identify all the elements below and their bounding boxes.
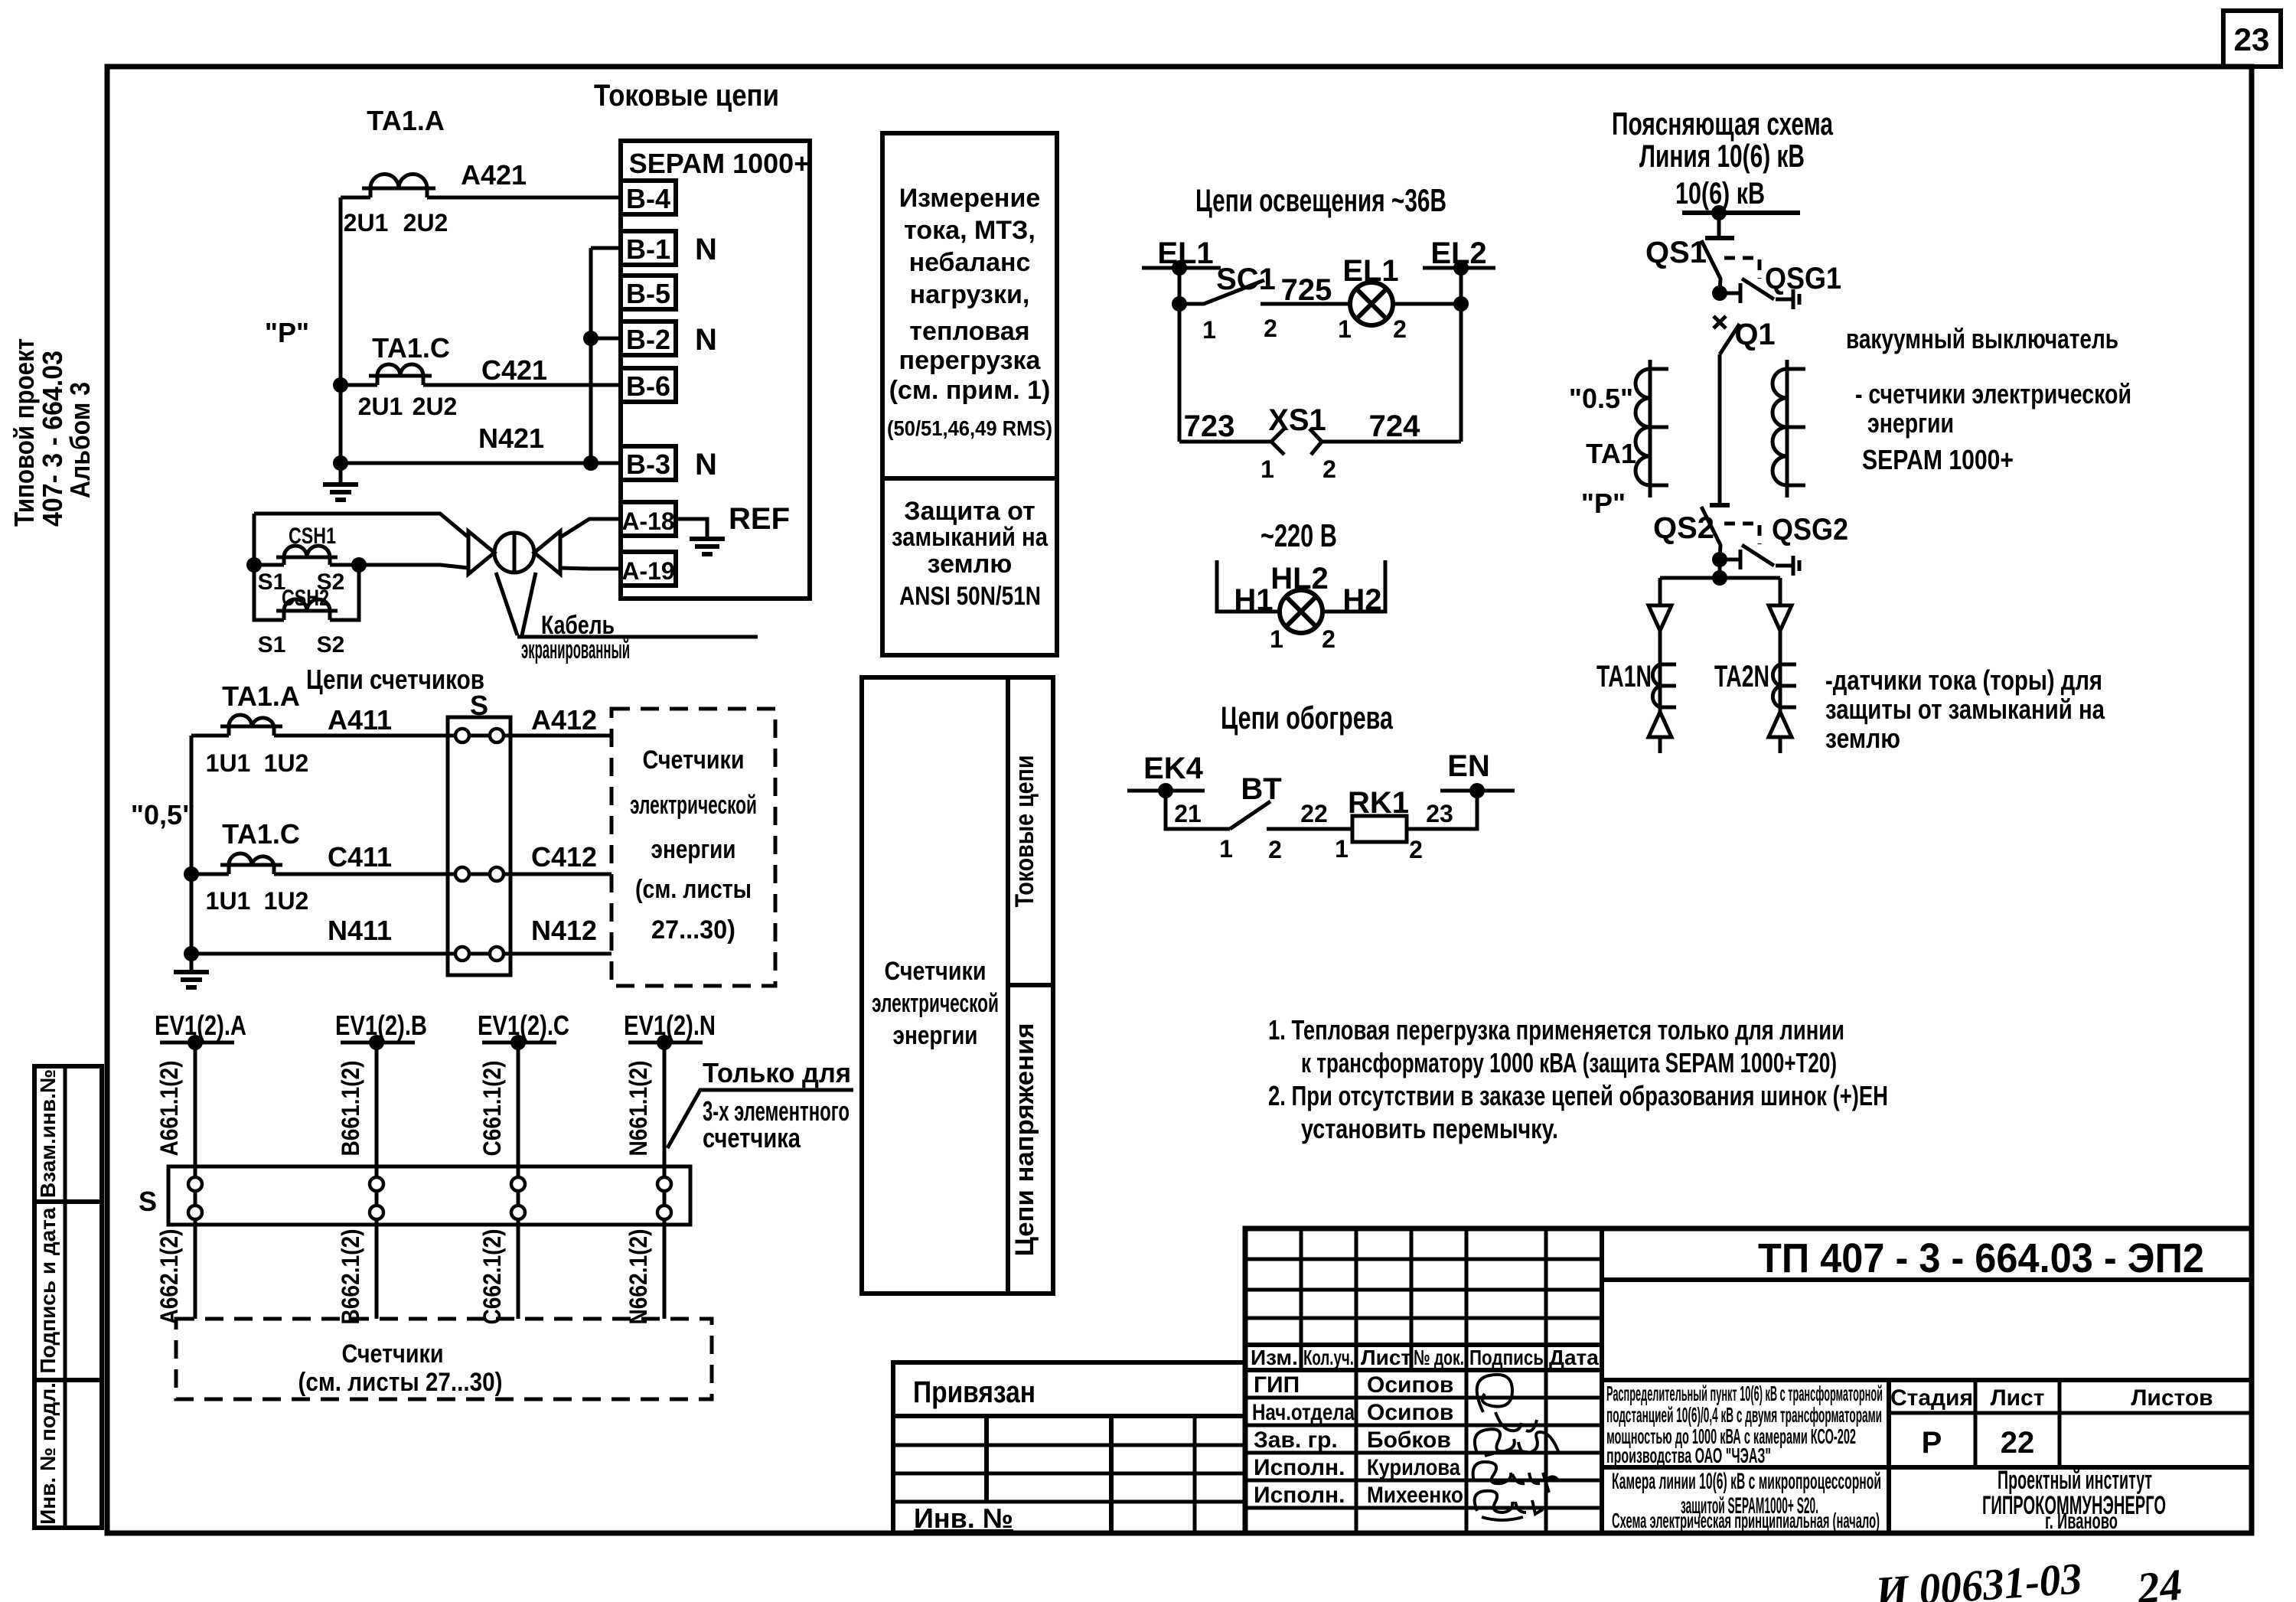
node EL2 [1423, 237, 1495, 276]
svg-text:Цепи напряжения: Цепи напряжения [1010, 1023, 1039, 1257]
pin 2U1 of TA1.C [358, 393, 403, 420]
junction below QS1 [1712, 285, 1727, 301]
svg-text:724: 724 [1369, 409, 1420, 443]
toroidal CT TA2N [1714, 660, 1796, 707]
contacts of S on A411 [455, 729, 504, 742]
label Кабель экранированный [496, 573, 758, 664]
svg-text:Линия 10(6) кВ: Линия 10(6) кВ [1639, 138, 1805, 174]
svg-text:счетчика: счетчика [703, 1122, 801, 1153]
junction N bus at B-3 [583, 455, 598, 471]
svg-text:землю: землю [928, 550, 1013, 579]
contacts of S on C411 [455, 867, 504, 881]
terminal A-19 [621, 552, 676, 586]
terminal B-2 [621, 321, 676, 355]
svg-text:Камера линии 10(6) кВ с микроп: Камера линии 10(6) кВ с микропроцессорно… [1612, 1469, 1881, 1494]
svg-text:B661.1(2): B661.1(2) [337, 1061, 364, 1157]
pin 2 of HL2 [1322, 625, 1336, 653]
wire 725 [1261, 273, 1351, 307]
svg-text:производства ОАО "ЧЭАЗ": производства ОАО "ЧЭАЗ" [1606, 1444, 1771, 1467]
wire bus to QS1 [1705, 213, 1734, 238]
svg-text:Р: Р [1922, 1426, 1942, 1460]
svg-text:Осипов: Осипов [1367, 1372, 1453, 1398]
label TA1 [1586, 438, 1636, 469]
svg-text:ТА1.С: ТА1.С [222, 818, 300, 850]
wire cable to A-18 [560, 519, 621, 537]
test block S voltage [139, 1166, 690, 1225]
title block document number ТП 407-3-664.03-ЭП2 [1602, 1235, 2252, 1281]
wire A421 [341, 159, 621, 197]
label P [1581, 488, 1626, 519]
svg-text:экранированный: экранированный [521, 635, 630, 664]
node H2 rail [1322, 560, 1385, 612]
svg-text:Цепи обогрева: Цепи обогрева [1221, 700, 1393, 736]
svg-text:Исполн.: Исполн. [1254, 1455, 1345, 1480]
terminal B-3 [621, 446, 676, 480]
svg-text:тока, МТЗ,: тока, МТЗ, [904, 216, 1035, 245]
net label N at B-1 [695, 233, 717, 266]
svg-text:2U1: 2U1 [358, 393, 403, 420]
svg-text:2: 2 [1322, 455, 1336, 483]
svg-text:Дата: Дата [1549, 1346, 1599, 1369]
svg-text:1: 1 [1335, 835, 1349, 863]
wire 724 [1322, 409, 1461, 443]
wire EL1 drop [1178, 268, 1182, 442]
left sidebar table [34, 1066, 102, 1528]
section title Токовые цепи [594, 79, 779, 113]
wire B661.1(2) [337, 1042, 377, 1166]
wire N661.1(2) [625, 1042, 664, 1166]
svg-text:Взам.инв.№: Взам.инв.№ [36, 1069, 60, 1198]
svg-text:энергии: энергии [893, 1021, 978, 1050]
svg-text:г. Иваново: г. Иваново [2045, 1509, 2118, 1534]
svg-text:Привязан: Привязан [913, 1375, 1035, 1409]
pin 2U2 of TA1.C [413, 393, 458, 420]
svg-text:21: 21 [1174, 800, 1202, 827]
svg-text:Нач.отдела: Нач.отдела [1252, 1400, 1355, 1425]
svg-text:2: 2 [1393, 315, 1407, 343]
notes [1268, 1014, 1888, 1144]
contacts of S voltage on A [188, 1166, 202, 1225]
svg-text:407- 3 - 664.03: 407- 3 - 664.03 [37, 351, 68, 527]
arrow up right [1769, 707, 1792, 753]
svg-text:REF: REF [729, 502, 790, 536]
pin 1 of SC1 [1202, 316, 1216, 344]
svg-text:Исполн.: Исполн. [1254, 1483, 1345, 1508]
svg-text:EV1(2).C: EV1(2).C [478, 1010, 569, 1041]
contacts of S voltage on B [370, 1166, 383, 1225]
svg-text:EN: EN [1447, 749, 1490, 783]
label H1 [1234, 583, 1273, 617]
svg-text:N661.1(2): N661.1(2) [625, 1061, 652, 1157]
svg-text:- счетчики электрической: - счетчики электрической [1855, 378, 2131, 409]
svg-text:Листов: Листов [2131, 1385, 2213, 1411]
svg-text:тепловая: тепловая [909, 317, 1029, 346]
wire N bus vertical [591, 248, 621, 463]
svg-text:N411: N411 [328, 915, 392, 946]
toroidal CT CSH1 [276, 524, 338, 565]
svg-text:Счетчики: Счетчики [342, 1339, 444, 1369]
svg-text:защиты от замыканий на: защиты от замыканий на [1825, 693, 2105, 725]
wire left sensor drop [1658, 578, 1662, 605]
pin 2 of lamp EL1 [1393, 315, 1407, 343]
svg-text:Счетчики: Счетчики [885, 957, 987, 986]
wire into TA2N [1779, 631, 1782, 664]
wire 22 [1267, 800, 1352, 829]
svg-text:Кол.уч.: Кол.уч. [1303, 1346, 1354, 1369]
pin S2 of CSH1 [317, 569, 345, 595]
meters box Счетчики электрической энергии [612, 709, 775, 986]
svg-text:B-3: B-3 [626, 449, 670, 480]
wire CSH right loop [330, 565, 359, 620]
terminal B-1 [621, 231, 676, 265]
wire C412 [503, 841, 612, 874]
svg-text:Подпись: Подпись [1469, 1346, 1544, 1369]
earthing switch QSG1 [1720, 262, 1841, 309]
svg-text:27...30): 27...30) [651, 915, 735, 945]
svg-text:2: 2 [1409, 836, 1423, 863]
svg-text:электрической: электрической [630, 791, 757, 820]
junction at N421 left [333, 455, 348, 471]
pin 2 of BT [1268, 836, 1282, 863]
handwritten inventory number [1873, 1553, 2184, 1602]
pin S1 of CSH1 [258, 569, 286, 595]
svg-text:S: S [470, 690, 488, 721]
svg-text:энергии: энергии [1867, 407, 1954, 439]
svg-text:замыканий на: замыканий на [892, 523, 1049, 552]
node EV1(2).A [155, 1010, 246, 1050]
svg-text:B-2: B-2 [626, 324, 670, 355]
pin S2 of CSH2 [317, 632, 345, 657]
svg-text:A-19: A-19 [621, 557, 674, 585]
svg-text:Защита от: Защита от [904, 497, 1035, 526]
label датчики тока [1825, 664, 2105, 754]
svg-text:SEPAM 1000+: SEPAM 1000+ [629, 148, 810, 179]
svg-text:Распределительный пункт 10(6): Распределительный пункт 10(6) кВ с транс… [1606, 1382, 1883, 1405]
pin 2 of RK1 [1409, 836, 1423, 863]
svg-text:ANSI 50N/51N: ANSI 50N/51N [899, 582, 1041, 611]
section title Поясняющая схема [1612, 106, 1833, 174]
wire CSH mid to cable [359, 565, 468, 568]
wire lamp to EL2 [1392, 302, 1461, 306]
terminal B-5 [621, 276, 676, 309]
pin 1 of XS1 [1261, 455, 1274, 483]
ground at REF [676, 519, 725, 554]
resistor RK1 [1348, 786, 1409, 842]
svg-text:ТП 407 - 3 - 664.03 - ЭП2: ТП 407 - 3 - 664.03 - ЭП2 [1758, 1235, 2204, 1281]
attachment box Привязан [893, 1362, 1245, 1534]
svg-text:Только для: Только для [703, 1057, 851, 1088]
node EV1(2).N [624, 1010, 716, 1050]
svg-text:SC1: SC1 [1216, 263, 1276, 296]
svg-text:1: 1 [1219, 835, 1233, 863]
svg-text:2: 2 [1268, 836, 1282, 863]
svg-text:нагрузки,: нагрузки, [910, 280, 1030, 309]
svg-text:небаланс: небаланс [909, 248, 1031, 277]
lamp HL2 [1270, 562, 1329, 633]
junction on left vertical at TA1.C [333, 377, 348, 393]
svg-text:Поясняющая схема: Поясняющая схема [1612, 106, 1833, 142]
wire EL2 drop [1459, 268, 1463, 442]
svg-text:22: 22 [2001, 1426, 2035, 1460]
svg-text:QSG2: QSG2 [1772, 513, 1848, 547]
wire left vertical common [339, 197, 343, 463]
svg-text:S: S [139, 1186, 157, 1217]
svg-text:1U2: 1U2 [264, 887, 309, 915]
wire CSH top to cable [254, 514, 468, 537]
svg-text:Токовые цепи: Токовые цепи [594, 79, 779, 113]
contacts of S voltage on C [511, 1166, 525, 1225]
label H2 [1342, 583, 1381, 617]
svg-text:1. Тепловая перегрузка примен: 1. Тепловая перегрузка применяется тольк… [1268, 1014, 1844, 1046]
svg-text:"0,5": "0,5" [131, 799, 195, 830]
junction at EL2 drop [1453, 296, 1469, 312]
wire N411 [191, 915, 456, 954]
terminal B-4 [621, 181, 676, 214]
svg-text:24: 24 [2135, 1559, 2184, 1602]
svg-text:XS1: XS1 [1268, 403, 1326, 437]
svg-text:2: 2 [1322, 625, 1336, 653]
svg-text:1U2: 1U2 [264, 749, 309, 777]
svg-text:Токовые цепи: Токовые цепи [1010, 755, 1039, 908]
svg-text:Схема электрическая принципиал: Схема электрическая принципиальная (нача… [1612, 1509, 1880, 1532]
svg-text:ТА1.А: ТА1.А [222, 680, 300, 712]
wire N662.1(2) [625, 1225, 664, 1325]
svg-text:C421: C421 [481, 354, 547, 386]
wire 723 [1179, 409, 1271, 443]
test block S meters [448, 690, 510, 975]
label "0,5" winding class [131, 799, 195, 830]
svg-text:Альбом 3: Альбом 3 [64, 382, 96, 498]
svg-text:B662.1(2): B662.1(2) [337, 1229, 364, 1325]
disconnector QS2 [1653, 507, 1720, 560]
svg-text:S2: S2 [317, 632, 345, 657]
wire 23 [1407, 791, 1477, 829]
section title Цепи освещения ~36В [1195, 182, 1446, 218]
svg-text:725: 725 [1281, 273, 1332, 307]
svg-text:B-4: B-4 [626, 183, 670, 214]
svg-text:A412: A412 [531, 704, 597, 736]
node EN [1440, 749, 1515, 798]
switch SC1 [1179, 263, 1276, 304]
svg-text:A661.1(2): A661.1(2) [155, 1061, 183, 1157]
wire to sensors bus [1660, 560, 1780, 578]
pin 2 of XS1 [1322, 455, 1336, 483]
arrow up left [1649, 707, 1671, 753]
ground at meters [174, 954, 209, 987]
current transformer TA1.A meters [220, 680, 300, 736]
svg-text:QSG1: QSG1 [1765, 262, 1841, 295]
section title Цепи счетчиков [306, 664, 484, 695]
svg-text:EV1(2).A: EV1(2).A [155, 1010, 246, 1041]
junction sensors bus [1712, 570, 1727, 586]
svg-text:EK4: EK4 [1143, 752, 1204, 785]
terminal B-6 [621, 368, 676, 402]
wire C661.1(2) [478, 1042, 518, 1166]
svg-text:Изм.: Изм. [1251, 1346, 1298, 1369]
wire CSH left loop [254, 514, 284, 620]
wire cable to A-19 [560, 568, 621, 569]
svg-text:Инв. № подл.: Инв. № подл. [36, 1382, 60, 1525]
svg-text:ГИП: ГИП [1254, 1372, 1300, 1398]
svg-text:TA1N: TA1N [1596, 660, 1652, 693]
ground at current circuits [323, 463, 358, 500]
svg-text:2: 2 [1264, 315, 1277, 342]
function box Защита от замыканий на землю [882, 478, 1057, 655]
svg-text:BT: BT [1241, 772, 1281, 806]
svg-text:2. При отсутствии в заказе це: 2. При отсутствии в заказе цепей образов… [1268, 1080, 1888, 1111]
wire N421 [341, 423, 621, 463]
label 0.5 [1569, 383, 1633, 414]
svg-text:N: N [695, 233, 717, 266]
interlock dashes QS1-QSG1 [1724, 258, 1760, 279]
svg-text:Цепи счетчиков: Цепи счетчиков [306, 664, 484, 695]
pin S1 of CSH2 [258, 632, 286, 657]
svg-text:SEPAM 1000+: SEPAM 1000+ [1862, 444, 2014, 475]
svg-text:N: N [695, 323, 717, 357]
pin 1U1 of TA1.A meters [206, 749, 251, 777]
svg-text:1: 1 [1270, 625, 1283, 653]
svg-text:Счетчики: Счетчики [643, 746, 745, 775]
title block sheet name [1612, 1469, 1881, 1532]
truck contact x mark [1714, 316, 1726, 328]
svg-text:ТА1.А: ТА1.А [367, 105, 445, 136]
svg-text:1: 1 [1202, 316, 1216, 344]
svg-text:энергии: энергии [651, 835, 736, 864]
svg-text:EV1(2).N: EV1(2).N [624, 1010, 716, 1041]
svg-text:ТА1.С: ТА1.С [372, 332, 450, 364]
junction at SC1 tap [1172, 296, 1187, 312]
svg-text:Осипов: Осипов [1367, 1400, 1453, 1425]
pin 2U2 of TA1.A [403, 209, 448, 237]
svg-text:2U2: 2U2 [413, 393, 458, 420]
svg-text:EV1(2).B: EV1(2).B [335, 1010, 427, 1041]
node H1 rail [1217, 560, 1280, 612]
svg-text:Зав. гр.: Зав. гр. [1254, 1427, 1338, 1453]
svg-text:C662.1(2): C662.1(2) [478, 1229, 506, 1325]
label "P" winding class [265, 317, 309, 348]
function box Счетчики электрической энергии tall [862, 677, 1053, 1294]
label вакуумный выключатель [1846, 323, 2118, 354]
pin 2 of SC1 [1264, 315, 1277, 342]
meters box Счетчики (см. листы 27...30) [176, 1319, 712, 1399]
svg-text:Стадия: Стадия [1890, 1385, 1973, 1411]
svg-text:Типовой проект: Типовой проект [8, 338, 40, 527]
junction meters left at N411 [184, 946, 199, 961]
label счетчики электрической энергии [1855, 378, 2131, 439]
svg-text:1: 1 [1261, 455, 1274, 483]
svg-text:23: 23 [1426, 800, 1453, 827]
net label N at B-2 [695, 323, 717, 357]
section title Цепи обогрева [1221, 700, 1393, 736]
title block institute [1982, 1466, 2166, 1534]
title block outer [1245, 1228, 2252, 1533]
node EV1(2).C [478, 1010, 569, 1050]
node EL1 left [1142, 237, 1221, 276]
wire A662.1(2) [155, 1225, 195, 1325]
svg-text:Цепи освещения ~36В: Цепи освещения ~36В [1195, 182, 1446, 218]
pin 1 of BT [1219, 835, 1233, 863]
svg-text:к трансформатору 1000 кВА (защ: к трансформатору 1000 кВА (защита SEPAM … [1301, 1047, 1837, 1078]
wire B662.1(2) [337, 1225, 377, 1325]
wire C421 [341, 354, 621, 386]
svg-text:№ док.: № док. [1414, 1346, 1464, 1369]
svg-text:"Р": "Р" [1581, 488, 1626, 519]
sheet number box 23 [2223, 11, 2281, 67]
node EV1(2).B [335, 1010, 427, 1050]
svg-text:C412: C412 [531, 841, 597, 873]
wire 21 [1166, 791, 1230, 829]
label SEPAM 1000+ [1862, 444, 2014, 475]
svg-text:B-6: B-6 [626, 370, 670, 402]
plug XS1 [1268, 403, 1326, 455]
current transformer TA1.A [362, 105, 445, 197]
svg-text:TA2N: TA2N [1714, 660, 1769, 693]
svg-text:1: 1 [1338, 315, 1352, 343]
svg-text:Подпись и дата: Подпись и дата [36, 1207, 60, 1373]
arrow down left [1649, 605, 1671, 631]
svg-text:электрической: электрической [872, 989, 999, 1018]
earthing switch QSG2 [1720, 513, 1848, 576]
svg-text:2U1: 2U1 [344, 209, 389, 237]
signatures [1473, 1375, 1558, 1520]
shielded cable symbol [468, 531, 560, 574]
wire A411 [191, 704, 456, 736]
svg-text:N412: N412 [531, 915, 597, 946]
contacts of S on N411 [455, 947, 504, 961]
wire C411 [191, 841, 456, 874]
svg-text:(см. листы 27...30): (см. листы 27...30) [298, 1368, 503, 1397]
svg-text:H1: H1 [1234, 583, 1273, 617]
svg-text:1U1: 1U1 [206, 749, 251, 777]
wire into TA1N [1658, 631, 1662, 664]
pin 1U2 of TA1.C meters [264, 887, 309, 915]
node REF [729, 502, 790, 536]
wire Q1 vertical [1710, 354, 1730, 505]
svg-text:установить перемычку.: установить перемычку. [1301, 1113, 1558, 1144]
svg-text:1U1: 1U1 [206, 887, 251, 915]
left margin stamp: Типовой проект 407-3-664.03 Альбом 3 [8, 338, 96, 527]
svg-text:A-18: A-18 [621, 507, 674, 535]
pin 1 of lamp EL1 [1338, 315, 1352, 343]
svg-text:(см. прим. 1): (см. прим. 1) [889, 376, 1051, 405]
svg-text:Михеенко: Михеенко [1367, 1483, 1463, 1508]
node EK4 [1127, 752, 1205, 798]
svg-text:B-5: B-5 [626, 278, 670, 309]
svg-text:Q1: Q1 [1734, 318, 1775, 351]
current transformer TA1 [1636, 360, 1668, 498]
svg-text:C411: C411 [328, 841, 392, 873]
current transformer TA1.C [369, 332, 450, 385]
svg-text:S1: S1 [258, 632, 286, 657]
svg-text:вакуумный выключатель: вакуумный выключатель [1846, 323, 2118, 354]
svg-text:"0.5": "0.5" [1569, 383, 1633, 414]
svg-text:C661.1(2): C661.1(2) [478, 1061, 506, 1157]
svg-text:(см. листы: (см. листы [635, 875, 752, 904]
svg-text:QS1: QS1 [1645, 236, 1707, 269]
title block right grid [1602, 1380, 2252, 1533]
wire N412 [503, 915, 612, 954]
svg-text:Инв. №: Инв. № [914, 1502, 1013, 1534]
svg-text:"Р": "Р" [265, 317, 309, 348]
wire right sensor drop [1779, 578, 1782, 605]
toroidal CT TA1N [1596, 660, 1676, 707]
breaker Q1 [1720, 318, 1776, 354]
svg-text:22: 22 [1300, 800, 1328, 827]
interlock dashes QS2-QSG2 [1724, 524, 1760, 544]
svg-text:A421: A421 [461, 159, 527, 191]
lamp EL1 [1342, 254, 1398, 325]
svg-text:23: 23 [2234, 21, 2270, 57]
